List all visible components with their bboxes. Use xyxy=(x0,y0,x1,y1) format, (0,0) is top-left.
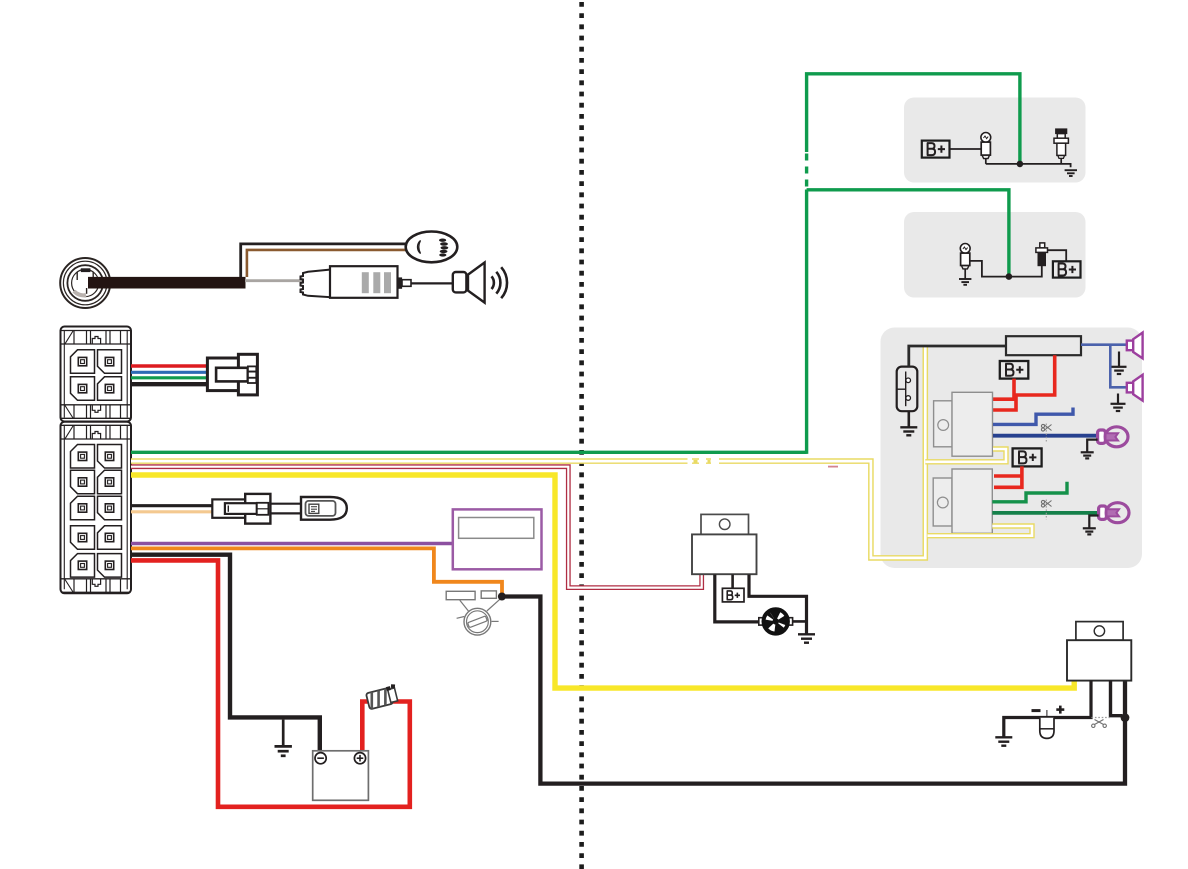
connector J2 pin 8 xyxy=(98,470,122,494)
wire black K1 pin to ground via fan xyxy=(749,575,807,635)
wire black fan to ground wire xyxy=(788,620,807,623)
wire pale yellow branch relay K3 xyxy=(925,449,1006,462)
connector J2 pin 6 xyxy=(98,445,122,469)
connector J2 pin 12 xyxy=(98,526,122,550)
wire green top to box1 xyxy=(807,74,1020,164)
ground G10 box2 xyxy=(959,279,971,285)
relay K2 bottom-right tab xyxy=(1076,622,1123,641)
wire orange from J2 to ignition node xyxy=(131,548,502,593)
ground G4 door switch xyxy=(900,427,917,435)
bulb L2 xyxy=(1099,503,1129,523)
wire thick black LED cable xyxy=(88,277,246,289)
wire navy relay K3 to bulb L1 xyxy=(993,434,1098,438)
wire black switch to ground xyxy=(907,411,910,427)
wire red B+ to relay K4 xyxy=(994,466,1022,487)
wire green main xyxy=(131,451,807,454)
wire black box2 bottom xyxy=(970,261,1042,277)
page divider dotted line xyxy=(579,2,584,869)
ground G6 speaker2 xyxy=(1111,394,1126,412)
fuse block F2 xyxy=(1006,336,1081,355)
relay K1 center body xyxy=(692,534,757,574)
connector J2 pin 7 xyxy=(71,470,95,494)
scissors cut mark 1 xyxy=(1041,424,1051,444)
wire black switch to fuse xyxy=(909,346,1006,367)
B+ label K4 xyxy=(1013,448,1042,466)
relay K3 coil part xyxy=(934,401,953,447)
wire brown to microphone xyxy=(247,250,408,277)
ground G2 fan xyxy=(798,634,815,642)
wire blue J1 xyxy=(131,371,208,374)
ground G9 box1 xyxy=(1065,170,1077,176)
wire crimson cut stub xyxy=(828,466,838,468)
wire black K1 pin to B plus xyxy=(731,575,734,589)
wire blue stub relay K3 xyxy=(993,408,1073,425)
wire pale yellow branch relay K4 xyxy=(928,526,1033,536)
scissors cut mark 2 xyxy=(1041,500,1051,520)
pin switch SW5 box2 xyxy=(1036,243,1048,266)
junction node ignition xyxy=(498,593,506,601)
wire crimson hollow from J2 to relay K1 xyxy=(131,467,702,588)
gray panel box2 right xyxy=(904,212,1086,298)
wire black box1 bottom xyxy=(986,164,1071,167)
wire red B+ to relay K3 xyxy=(993,379,1014,400)
plug P1 4-pin xyxy=(207,354,257,395)
connector J2 pin 11 xyxy=(71,526,95,550)
connector J2 pin 10 xyxy=(98,496,122,520)
wire black K2 pin B jog xyxy=(1111,681,1123,716)
ground G1 battery area xyxy=(275,720,292,756)
wire black J1 xyxy=(131,382,208,386)
relay K4 body xyxy=(952,469,992,533)
wire black antenna to siren xyxy=(411,282,454,284)
B+ label K3 xyxy=(1000,361,1029,379)
gray panel box1 top right xyxy=(904,98,1086,183)
wire green J1 xyxy=(131,376,208,379)
wire gray to antenna plug xyxy=(245,279,302,282)
wire green riser dashed break xyxy=(803,151,811,189)
wire black K1 pin to fan xyxy=(715,575,762,622)
junction node green box1 xyxy=(1017,161,1024,168)
pale yellow wire dash gaps xyxy=(688,458,693,464)
valet inline connector piece A xyxy=(212,494,270,524)
ground G5 speaker1 xyxy=(1112,352,1127,375)
wire pale yellow hollow from J2 xyxy=(131,347,925,558)
bulb L4 box2 xyxy=(960,244,970,280)
backup battery cell xyxy=(1032,706,1065,739)
wire red fuse to relay K3 xyxy=(993,355,1055,410)
siren speaker xyxy=(453,263,485,303)
LED status indicator ring xyxy=(60,258,110,308)
wire black from J2 to chassis ground and battery minus xyxy=(131,555,320,751)
ignition switch SW2 xyxy=(446,591,501,635)
inline fuse F1 xyxy=(365,683,399,709)
relay K3 body xyxy=(952,392,993,456)
scissors cut mark bottom right xyxy=(1092,718,1111,728)
gray panel big relay box xyxy=(881,328,1143,569)
junction node green box2 xyxy=(1006,273,1013,280)
relay K1 center tab xyxy=(701,514,749,534)
connector J1 pin 4 xyxy=(98,377,122,401)
ground G3 backup battery xyxy=(995,737,1012,745)
siren sound arcs xyxy=(492,267,508,298)
bulb L3 box1 xyxy=(981,133,991,164)
speaker SP2 xyxy=(1127,375,1143,401)
connector J1 pin 2 xyxy=(98,350,122,374)
connector J1 pin 3 xyxy=(71,377,95,401)
connector J2 pin 5 xyxy=(71,445,95,469)
speaker SP1 xyxy=(1127,333,1143,359)
B+ label box2 xyxy=(1053,261,1081,277)
wire yellow thick from J2 to relay K2 xyxy=(131,475,1074,688)
wire black B+ to bulb L3 xyxy=(950,148,982,150)
wire green stub relay K4 xyxy=(992,482,1067,502)
junction node bottom right xyxy=(1121,713,1130,722)
relay K4 coil part xyxy=(933,478,952,526)
wire black K2 pin A to backup battery and ground xyxy=(1004,681,1091,738)
wire tan from J2 xyxy=(131,510,214,513)
pin switch SW4 box1 xyxy=(1054,129,1068,164)
wire black box2 switch to B+ xyxy=(1048,250,1067,261)
wire pair to valet switch xyxy=(270,503,302,505)
connector J2 pin 14 xyxy=(98,554,122,578)
wire green vertical riser xyxy=(805,190,808,454)
wire purple from J2 to display xyxy=(131,542,454,546)
display module purple box xyxy=(453,509,542,569)
wire red from J2 to battery plus via fuse xyxy=(131,560,410,806)
antenna connector plug xyxy=(301,266,412,298)
battery BT1 xyxy=(313,751,369,801)
wire black ignition to bottom-right relay xyxy=(502,597,1125,784)
wire black to microphone xyxy=(241,244,407,277)
connector J1 pin 1 xyxy=(71,350,95,374)
connector J2 10-pin housing xyxy=(61,422,132,594)
valet switch SW1 xyxy=(301,497,347,520)
B+ label center xyxy=(722,588,744,602)
wire blue to speakers xyxy=(1081,345,1128,388)
connector J2 pin 13 xyxy=(71,554,95,578)
relay K2 bottom-right body xyxy=(1067,640,1131,680)
connector J1 4-pin housing xyxy=(61,327,132,422)
wire green branch to box2 xyxy=(807,190,1009,277)
microphone MIC oval xyxy=(406,232,458,263)
fan M1 xyxy=(759,609,793,633)
B+ label box1 xyxy=(922,141,950,158)
wire black to valet connector xyxy=(131,504,214,507)
wire green relay K4 to bulb L2 xyxy=(992,511,1099,515)
bulb L1 xyxy=(1098,427,1128,447)
door switch SW3 big box xyxy=(897,367,918,412)
ground G7 bulb L1 xyxy=(1081,440,1098,459)
connector J2 pin 9 xyxy=(71,496,95,520)
wire red J1 xyxy=(131,364,208,367)
ground G8 bulb L2 xyxy=(1083,516,1099,535)
